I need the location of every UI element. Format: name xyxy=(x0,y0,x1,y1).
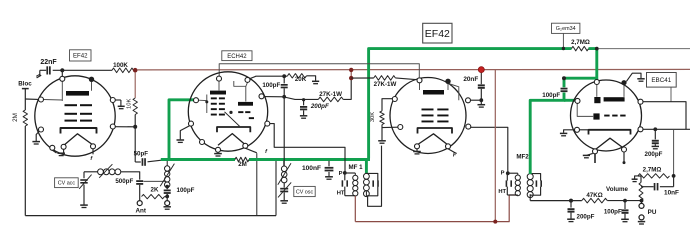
wire label pointer xyxy=(670,87,672,101)
node diode feed xyxy=(562,76,566,80)
resistor 47K xyxy=(582,198,608,203)
svg-text:MF 1: MF 1 xyxy=(348,164,363,171)
capacitor MF1 primary xyxy=(344,173,346,180)
node MF2 primary top xyxy=(506,171,510,175)
capacitor 100pF AF xyxy=(624,201,626,209)
cathode V1 xyxy=(61,128,97,134)
heater V1 xyxy=(64,134,93,146)
pin anode V1 filled xyxy=(89,77,94,82)
svg-text:500pF: 500pF xyxy=(115,178,133,185)
grid dashes heptode V2 xyxy=(211,97,217,99)
wire triode grid V2 xyxy=(264,96,284,98)
node HT bottom xyxy=(493,220,497,224)
capacitor C1 22nF input xyxy=(40,69,46,71)
internal leads V4 xyxy=(596,84,598,96)
wire MF1 secondary return xyxy=(368,146,382,207)
label box G2 em34 xyxy=(552,23,580,33)
svg-text:CV osc: CV osc xyxy=(296,189,314,195)
svg-text:100pF: 100pF xyxy=(542,92,560,99)
wire filament drop V2 xyxy=(256,153,258,215)
svg-text:22nF: 22nF xyxy=(40,59,57,66)
wire green riser to HT top xyxy=(369,49,572,159)
resistor R1 100K xyxy=(112,68,134,73)
label box CV acc xyxy=(55,178,79,188)
terminals PU xyxy=(641,201,643,204)
wire anode V1 xyxy=(115,126,135,128)
svg-text:10K: 10K xyxy=(127,98,133,109)
resistor 27K-1W grid V3 xyxy=(351,77,374,79)
grid dashes triode V2 xyxy=(238,111,243,113)
capacitor MF2 primary xyxy=(506,173,508,180)
cathode V4 xyxy=(589,130,631,135)
anode plate V4 xyxy=(604,97,625,101)
grid dashes V4 xyxy=(604,115,609,117)
svg-text:EBC41: EBC41 xyxy=(651,77,671,84)
capacitor 100nF xyxy=(328,161,330,167)
wire 27K to HT node xyxy=(343,78,351,99)
wire MF1 primary to HT rail xyxy=(354,196,356,222)
wire to pot bottom xyxy=(607,200,641,202)
svg-text:Ant: Ant xyxy=(135,207,146,214)
ground heater V4 xyxy=(587,153,593,155)
lead f V2 xyxy=(245,148,256,153)
wire to volume network xyxy=(673,129,675,176)
wire node B down xyxy=(134,72,136,98)
lead f V3 xyxy=(448,149,457,154)
svg-text:20K: 20K xyxy=(295,76,307,83)
capacitor 500pF xyxy=(136,180,143,182)
capacitor 200pF screen xyxy=(303,100,305,106)
node HT dots xyxy=(349,68,353,72)
ground pin V2 left xyxy=(180,126,189,140)
grid dashes V1 xyxy=(65,104,78,106)
variable capacitor CV osc xyxy=(283,183,285,188)
wire HT line dark red xyxy=(137,68,690,71)
tube V4 EBC41 envelope xyxy=(571,80,642,151)
svg-text:2M: 2M xyxy=(238,161,247,168)
wire left rail xyxy=(24,89,26,110)
inductor antenna coil xyxy=(84,171,98,173)
svg-text:50pF: 50pF xyxy=(134,151,149,158)
inductor MF2 secondary xyxy=(527,174,533,180)
terminal Ant xyxy=(137,201,142,206)
tube V1 EF42 envelope xyxy=(35,76,115,156)
ground heater V2 xyxy=(217,152,219,153)
svg-text:2K: 2K xyxy=(151,187,159,194)
pin anode V4 filled xyxy=(621,80,626,85)
node coil bottom xyxy=(166,187,168,189)
capacitor MF2 secondary xyxy=(530,174,540,181)
wire coil to 500pF xyxy=(121,172,140,180)
svg-text:2M: 2M xyxy=(12,113,19,122)
capacitor 10nF xyxy=(641,186,654,188)
svg-text:100pF: 100pF xyxy=(177,187,195,194)
heater V2 xyxy=(218,134,245,146)
svg-text:20nF: 20nF xyxy=(463,76,478,83)
node HT bright red xyxy=(478,67,484,73)
svg-text:Volume: Volume xyxy=(606,186,628,193)
svg-text:CV acc: CV acc xyxy=(58,181,76,187)
wire green main to MF1 xyxy=(249,158,370,161)
svg-text:200pF: 200pF xyxy=(645,151,663,158)
wire AVC line to V3 grid xyxy=(219,64,419,78)
svg-text:10nF: 10nF xyxy=(664,190,679,197)
node grid V1 xyxy=(53,69,112,71)
anode plate V3 xyxy=(423,90,444,95)
svg-text:HT: HT xyxy=(498,189,506,195)
wire triode anode V2 to MF1 xyxy=(270,124,345,172)
label box EF42 V1 xyxy=(70,50,92,61)
wire detector output xyxy=(530,200,582,202)
ground cathode V4 xyxy=(564,130,575,133)
frame right border xyxy=(275,161,277,216)
inductor osc padder xyxy=(166,161,168,166)
pins V3 xyxy=(417,78,422,83)
wire 10K to anode node xyxy=(134,115,136,163)
wire green grid V2 path xyxy=(169,100,195,160)
diode plates V4 xyxy=(594,97,600,103)
wire cathode V3 xyxy=(381,125,383,141)
tube V3 EF42 envelope xyxy=(390,78,466,154)
heater V4 xyxy=(595,138,624,150)
capacitor 100pF detector xyxy=(561,88,568,90)
node anode V1 xyxy=(133,125,137,129)
ground top cap V4 xyxy=(626,73,641,81)
svg-text:EF42: EF42 xyxy=(425,28,450,40)
wire green diode feed xyxy=(564,77,597,80)
wire to 50pF xyxy=(135,161,141,163)
ground heater V1 xyxy=(63,149,65,152)
pins V1 xyxy=(60,76,65,81)
grid dashes V3 xyxy=(422,109,434,111)
inductor MF1 secondary xyxy=(364,173,370,179)
svg-text:30K: 30K xyxy=(370,112,376,122)
resistor 2K xyxy=(142,194,165,198)
svg-text:100K: 100K xyxy=(113,62,128,69)
cathode V2 xyxy=(217,127,250,132)
capacitor MF1 secondary xyxy=(366,173,377,180)
svg-text:2,7MΩ: 2,7MΩ xyxy=(571,39,590,46)
wire HT drop right xyxy=(494,70,496,222)
wire green to MF2 xyxy=(563,93,566,101)
ground after 20K xyxy=(307,76,316,81)
resistor 27K-1W screen xyxy=(284,97,318,99)
svg-text:PU: PU xyxy=(648,209,657,216)
wire diode out xyxy=(643,128,690,130)
anode plate V1 xyxy=(66,91,89,96)
internal leads V2 xyxy=(218,81,220,91)
wire heptode anode to 20K xyxy=(250,76,288,78)
capacitor 100pF osc grid xyxy=(283,78,285,83)
anode triode V2 xyxy=(238,102,253,106)
pin anode V3 filled xyxy=(445,79,450,84)
svg-text:47KΩ: 47KΩ xyxy=(586,192,602,199)
svg-text:27K-1W: 27K-1W xyxy=(319,91,342,98)
pins V4 xyxy=(594,80,599,85)
ground metallization V1 xyxy=(115,99,121,101)
heater V3 xyxy=(417,134,448,145)
resistor 2.7M detector load xyxy=(572,46,589,50)
inductor MF2 primary xyxy=(507,172,518,174)
wire anode V3 to MF2 xyxy=(471,127,508,173)
resistor R2 10K xyxy=(133,98,137,115)
svg-text:200pF: 200pF xyxy=(577,213,595,220)
svg-text:ECH42: ECH42 xyxy=(227,54,247,60)
frame bottom border xyxy=(25,215,276,217)
capacitor 200pF IF filter xyxy=(654,129,656,139)
capacitor 100pF osc xyxy=(164,190,171,192)
wire anode V4 out xyxy=(643,102,686,130)
label box EF42 IF xyxy=(423,23,452,43)
anode heptode V2 xyxy=(210,91,226,95)
internal leads V1 xyxy=(61,81,63,101)
wire green MF1 secondary drop xyxy=(365,161,368,173)
wire AVC out right xyxy=(599,48,690,50)
cathode V3 xyxy=(418,128,453,134)
resistor 2M xyxy=(23,110,27,126)
pins V2 xyxy=(217,76,222,81)
cathode link V2 xyxy=(229,111,232,114)
antenna trimmer CV acc xyxy=(83,172,85,178)
inductor MF1 primary xyxy=(345,172,356,174)
internal leads V3 xyxy=(419,83,421,90)
ground heater V3 xyxy=(416,149,418,151)
resistor cathode V3 xyxy=(382,99,393,111)
wire to grid pin V3 xyxy=(395,78,415,80)
wire label G2 lead xyxy=(562,33,564,47)
svg-text:Bloc: Bloc xyxy=(18,81,32,88)
wire green top to detector xyxy=(589,49,597,80)
resistor 2M on green xyxy=(235,157,249,161)
svg-text:HT: HT xyxy=(337,191,345,197)
node B anode supply xyxy=(133,68,138,73)
node 2K junction xyxy=(166,194,168,201)
label box EBC41 xyxy=(647,73,677,88)
svg-text:G₂em34: G₂em34 xyxy=(556,26,576,32)
wire HT bottom rail xyxy=(355,195,516,222)
svg-text:100pF: 100pF xyxy=(262,82,280,89)
svg-text:100nF: 100nF xyxy=(302,165,321,172)
svg-text:2,7MΩ: 2,7MΩ xyxy=(643,167,662,174)
svg-text:EF42: EF42 xyxy=(73,53,88,60)
inductor osc coil xyxy=(283,161,285,166)
svg-text:P: P xyxy=(501,170,505,176)
svg-text:MF2: MF2 xyxy=(516,154,529,161)
capacitor 200pF AF xyxy=(570,201,572,208)
svg-text:200pF: 200pF xyxy=(310,103,329,110)
resistor 20K xyxy=(288,74,307,78)
label box CV osc xyxy=(294,186,315,196)
terminal earth xyxy=(165,201,170,206)
svg-text:27K-1W: 27K-1W xyxy=(374,81,397,88)
ground pin V1 left-low xyxy=(36,131,39,141)
lead f V1 xyxy=(92,149,94,155)
tube V2 ECH42 envelope xyxy=(188,72,267,151)
node MF1 primary top xyxy=(343,171,347,175)
wire 500pF link xyxy=(144,180,166,182)
svg-text:P: P xyxy=(339,171,343,177)
label box ECH42 xyxy=(222,51,252,61)
svg-text:100pF: 100pF xyxy=(604,209,622,216)
wire grid return V1 xyxy=(25,98,38,100)
